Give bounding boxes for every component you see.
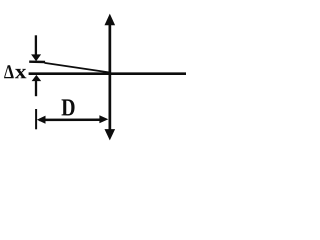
- small down arrow above tick: [35, 35, 37, 55]
- D dimension right arrowhead: [99, 115, 108, 123]
- small up arrow below axis: [35, 80, 37, 96]
- D dimension left arrowhead: [37, 116, 46, 124]
- horizontal axis: [29, 72, 186, 75]
- label delta-x : Delta glyph: [4, 65, 14, 78]
- left tick of D dimension: [35, 109, 37, 129]
- slanted ray: [45, 63, 111, 73]
- up arrowhead of vertical axis: [105, 14, 116, 26]
- label delta-x : x glyph: [15, 69, 26, 78]
- D dimension arrow shaft: [39, 118, 104, 121]
- vertical axis: [108, 24, 111, 130]
- label D: [62, 99, 75, 115]
- down arrowhead of vertical axis: [105, 129, 116, 140]
- upper tick of delta-x gap: [29, 61, 45, 64]
